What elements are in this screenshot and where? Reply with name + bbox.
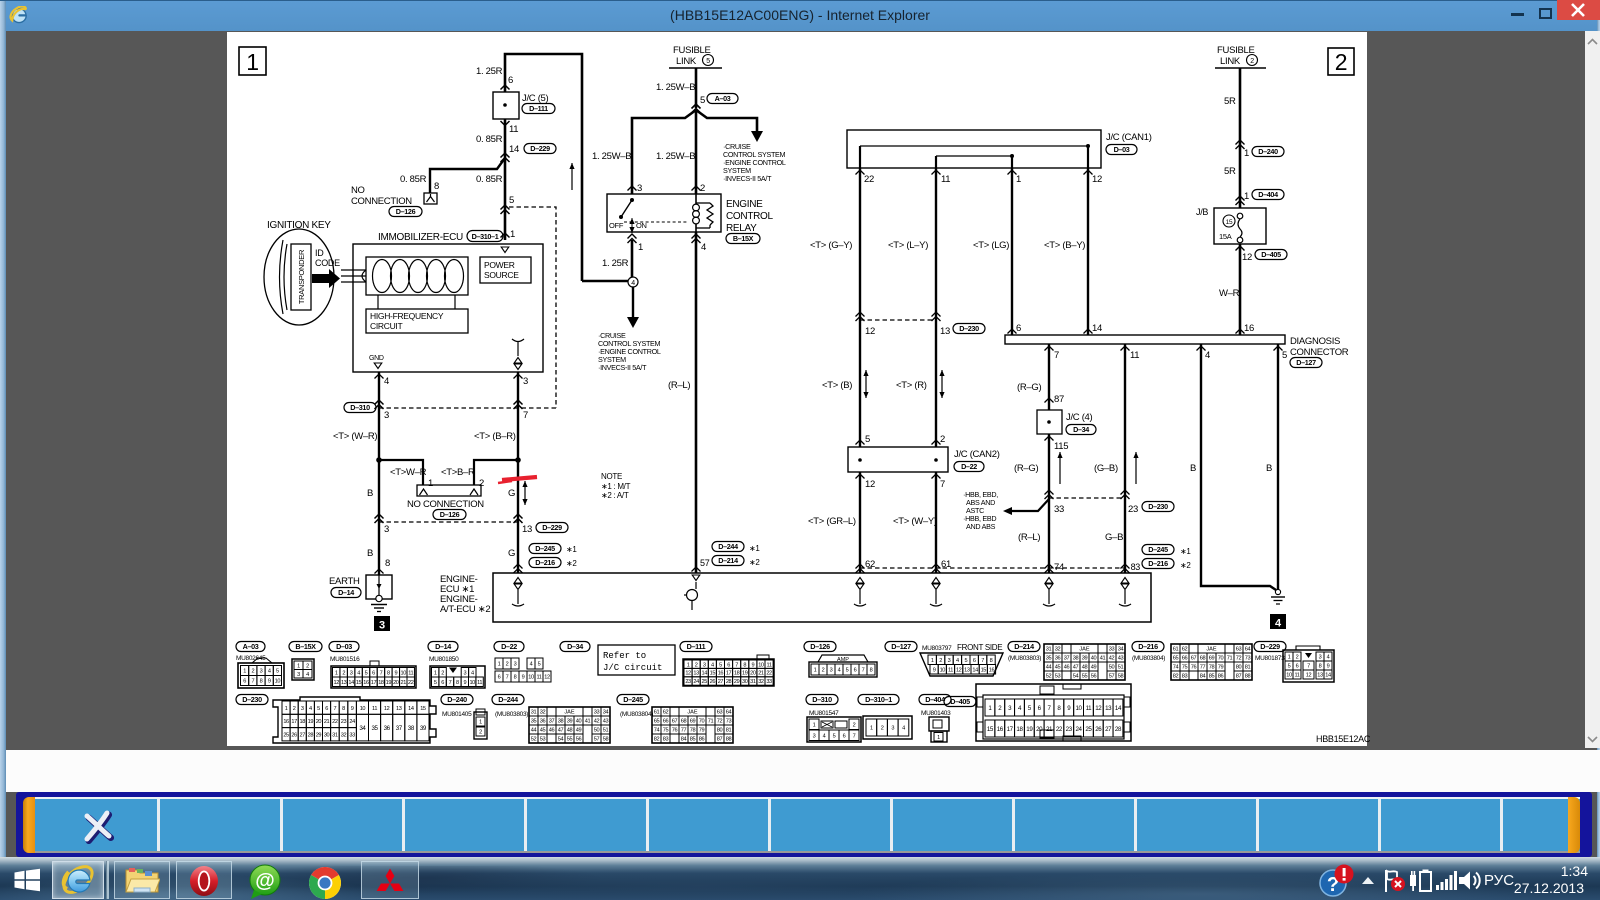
wire T B-Y: [1087, 168, 1089, 335]
pin 1 + D-240 pill: [1236, 140, 1245, 145]
svg-text:23: 23: [685, 679, 691, 685]
svg-text:B: B: [1266, 463, 1272, 474]
svg-text:6: 6: [498, 675, 501, 681]
wire pin4 B: [378, 372, 380, 575]
svg-text:61: 61: [1173, 647, 1179, 653]
toolbar right orange cap: [1568, 797, 1580, 853]
svg-text:20: 20: [750, 671, 756, 677]
svg-text:1: 1: [297, 663, 300, 669]
svg-text:11: 11: [509, 124, 518, 135]
svg-text:D–404: D–404: [925, 695, 945, 704]
svg-text:7: 7: [1307, 664, 1310, 670]
power source entry arrow: [501, 247, 509, 253]
wire 1.25R top bracket: [505, 54, 582, 281]
white diagram page: [227, 32, 1367, 746]
svg-text:31: 31: [750, 679, 756, 685]
svg-text:CIRCUIT: CIRCUIT: [370, 321, 402, 331]
svg-text:14: 14: [1115, 705, 1122, 712]
connector D-310-1 label: [858, 695, 899, 705]
svg-text:87: 87: [1054, 394, 1064, 405]
svg-text:D–126: D–126: [440, 510, 460, 519]
connector D-229 label: [1254, 642, 1286, 652]
svg-text:3: 3: [523, 376, 528, 387]
svg-text:12: 12: [1242, 252, 1252, 263]
svg-text:2: 2: [1296, 655, 1299, 661]
svg-text:4: 4: [1327, 655, 1330, 661]
taskbar Mail.ru agent icon: [246, 864, 284, 900]
refer to JC note box: [598, 645, 675, 675]
D-230 crossing right: [1045, 490, 1054, 495]
svg-text:<T> (R): <T> (R): [896, 380, 927, 391]
title text: [0, 7, 1600, 23]
svg-text:1: 1: [285, 706, 288, 712]
connector D-216 grid: [1171, 644, 1252, 680]
svg-text:SOURCE: SOURCE: [484, 270, 519, 280]
svg-text:D–245: D–245: [535, 544, 555, 553]
svg-text:68: 68: [681, 719, 687, 725]
svg-text:6: 6: [372, 670, 375, 676]
svg-text:5: 5: [719, 662, 722, 668]
svg-text:JAE: JAE: [1206, 647, 1217, 653]
svg-text:67: 67: [1191, 656, 1197, 662]
svg-text:77: 77: [1200, 665, 1206, 671]
svg-text:10: 10: [401, 670, 407, 676]
svg-text:4: 4: [357, 670, 360, 676]
svg-text:1: 1: [510, 229, 515, 240]
svg-text:2: 2: [1335, 49, 1348, 75]
svg-text:16: 16: [363, 680, 369, 686]
svg-text:53: 53: [1055, 674, 1061, 680]
wire fusible5 mid: [695, 110, 698, 194]
D-230 crossing can: [856, 312, 865, 317]
svg-text:57: 57: [700, 558, 710, 568]
svg-text:2: 2: [881, 726, 884, 732]
junction box J/C(CAN2): [848, 447, 948, 472]
svg-text:4: 4: [471, 670, 474, 676]
wire J/C5 to immobilizer: [504, 119, 507, 240]
svg-text:0. 85R: 0. 85R: [476, 174, 503, 185]
connector D-126 label: [804, 642, 836, 652]
svg-text:11: 11: [948, 667, 953, 673]
svg-text:58: 58: [603, 737, 609, 743]
svg-text:D–229: D–229: [1260, 642, 1280, 651]
svg-text:6: 6: [843, 733, 846, 739]
svg-text:75: 75: [1182, 665, 1188, 671]
svg-text:4: 4: [956, 658, 959, 664]
IE window title bar: [0, 0, 1600, 31]
svg-text:20: 20: [1036, 726, 1043, 733]
svg-text:12: 12: [334, 680, 340, 686]
svg-text:D–22: D–22: [501, 642, 517, 651]
svg-text:16: 16: [997, 726, 1004, 733]
svg-text:52: 52: [531, 737, 537, 743]
svg-text:5: 5: [964, 658, 967, 664]
svg-text:9: 9: [394, 670, 397, 676]
svg-text:<T> (LG): <T> (LG): [973, 240, 1009, 251]
svg-text:21: 21: [324, 719, 330, 725]
pill D-34 mid: [1066, 425, 1096, 435]
direction arrow up: [571, 163, 573, 190]
ecu internal antenna: [512, 339, 524, 356]
svg-text:74: 74: [654, 728, 660, 734]
svg-text:D–230: D–230: [242, 695, 262, 704]
D-229 crossing: [375, 514, 384, 519]
svg-text:27: 27: [718, 679, 724, 685]
svg-text:70: 70: [1218, 656, 1224, 662]
svg-text:D–245: D–245: [1148, 545, 1168, 554]
svg-text:19: 19: [742, 671, 748, 677]
svg-text:48: 48: [567, 728, 573, 734]
svg-text:50: 50: [594, 728, 600, 734]
pill D-310-1 label: [467, 231, 503, 242]
svg-text:8: 8: [385, 558, 390, 569]
svg-text:G: G: [508, 548, 515, 559]
svg-text:1. 25W–B: 1. 25W–B: [592, 151, 631, 162]
svg-text:10: 10: [469, 680, 475, 686]
svg-text:2: 2: [939, 658, 942, 664]
hbb arrow: [1003, 507, 1012, 515]
svg-text:LINK: LINK: [1220, 56, 1241, 67]
svg-text:13: 13: [1105, 705, 1112, 712]
svg-text:D–310: D–310: [350, 403, 370, 412]
svg-text:19: 19: [386, 680, 392, 686]
svg-text:1: 1: [498, 662, 501, 668]
connector D-03 grid: [370, 661, 379, 666]
svg-text:HIGH-FREQUENCY: HIGH-FREQUENCY: [370, 311, 444, 321]
pill D-111 top: [522, 104, 555, 114]
svg-text:FRONT SIDE: FRONT SIDE: [957, 643, 1002, 652]
svg-text:32: 32: [540, 710, 546, 716]
svg-text:12: 12: [685, 671, 691, 677]
svg-text:(R–G): (R–G): [1017, 382, 1041, 393]
svg-text:11: 11: [767, 662, 772, 668]
svg-text:5: 5: [706, 58, 710, 65]
svg-text:23: 23: [1066, 726, 1073, 733]
wire T L-Y: [935, 168, 937, 447]
red marker stroke: [502, 477, 537, 480]
svg-text:A–03: A–03: [243, 642, 259, 651]
svg-text:B: B: [1190, 463, 1196, 474]
language indicator: [1484, 872, 1524, 889]
tray up arrow: [1360, 874, 1376, 886]
connector D-230 outline: [273, 697, 436, 743]
svg-text:87: 87: [717, 737, 723, 743]
svg-text:MU803797: MU803797: [922, 645, 952, 652]
svg-text:(MU803803): (MU803803): [495, 711, 528, 718]
svg-text:·INVECS-II 5A/T: ·INVECS-II 5A/T: [598, 363, 647, 372]
svg-text:∗2 : A/T: ∗2 : A/T: [601, 491, 629, 500]
svg-text:5: 5: [846, 668, 849, 674]
connector D-244 grid: [529, 707, 610, 743]
svg-text:13: 13: [964, 667, 970, 673]
wire relay pin1 down: [631, 240, 634, 283]
svg-text:2: 2: [506, 662, 509, 668]
svg-text:MU801516: MU801516: [330, 656, 360, 663]
svg-text:43: 43: [1118, 656, 1124, 662]
svg-text:2: 2: [822, 668, 825, 674]
pill D-126 top: [389, 207, 422, 217]
svg-text:26: 26: [291, 732, 297, 738]
svg-text:14: 14: [702, 671, 708, 677]
svg-text:74: 74: [1054, 562, 1064, 573]
pill D-310 mid: [344, 403, 376, 413]
svg-text:7: 7: [380, 670, 383, 676]
taskbar Mitsubishi button: [361, 861, 419, 899]
svg-text:1: 1: [1244, 191, 1249, 202]
svg-text:86: 86: [699, 737, 705, 743]
svg-text:D–230: D–230: [959, 324, 979, 333]
svg-text:6: 6: [1016, 323, 1021, 334]
svg-text:D–216: D–216: [535, 558, 555, 567]
svg-text:32: 32: [758, 679, 764, 685]
svg-text:56: 56: [576, 737, 582, 743]
svg-text:33: 33: [766, 679, 772, 685]
svg-text:36: 36: [1055, 656, 1061, 662]
svg-text:D–03: D–03: [336, 642, 352, 651]
svg-text:83: 83: [1131, 562, 1141, 572]
svg-text:72: 72: [717, 719, 723, 725]
wire 5R upper: [1239, 68, 1242, 208]
svg-text:10: 10: [1286, 673, 1292, 679]
svg-text:5: 5: [538, 662, 541, 668]
wire fusible5 down: [695, 68, 698, 108]
svg-text:G–B: G–B: [1105, 532, 1123, 543]
svg-text:44: 44: [531, 728, 537, 734]
svg-text:73: 73: [726, 719, 732, 725]
svg-text:3: 3: [514, 662, 517, 668]
svg-text:14: 14: [348, 680, 354, 686]
connector D-111 label: [680, 642, 712, 652]
ground symbol earth: [371, 604, 387, 606]
svg-text:3: 3: [301, 706, 304, 712]
svg-text:D–405: D–405: [950, 697, 970, 706]
svg-text:73: 73: [1245, 656, 1251, 662]
svg-text:1: 1: [335, 670, 338, 676]
svg-text:5: 5: [434, 680, 437, 686]
svg-text:ID: ID: [315, 248, 324, 258]
tray battery icon: [1408, 869, 1434, 893]
diagnosis connector bar: [1005, 335, 1285, 344]
svg-text:29: 29: [734, 679, 740, 685]
svg-text:(MU803804): (MU803804): [1132, 655, 1165, 662]
svg-text:56: 56: [1091, 674, 1097, 680]
svg-text:88: 88: [726, 737, 732, 743]
svg-text:MU801547: MU801547: [809, 710, 839, 717]
svg-text:14: 14: [408, 706, 414, 712]
svg-text:4: 4: [1275, 618, 1282, 630]
svg-text:32: 32: [341, 732, 347, 738]
svg-text:D–14: D–14: [338, 588, 354, 597]
relay coil: [695, 194, 697, 204]
svg-text:19: 19: [1026, 726, 1033, 733]
tray flag icon: [1384, 869, 1406, 893]
dashed D-310 crossing: [379, 407, 556, 409]
svg-text:TRANSPONDER: TRANSPONDER: [297, 249, 306, 304]
svg-text:A/T-ECU ∗2: A/T-ECU ∗2: [440, 604, 490, 615]
wire node4 down arrow: [632, 287, 634, 317]
svg-text:D–310–1: D–310–1: [472, 232, 499, 241]
svg-text:13: 13: [396, 706, 402, 712]
wire pin3 G: [517, 372, 519, 573]
svg-text:D–244: D–244: [498, 695, 518, 704]
svg-text:D–245: D–245: [623, 695, 643, 704]
svg-text:57: 57: [1109, 674, 1115, 680]
relay resistor: [696, 202, 710, 204]
svg-text:MU801850: MU801850: [429, 656, 459, 663]
svg-text:D–216: D–216: [1148, 559, 1168, 568]
svg-text:67: 67: [672, 719, 678, 725]
svg-text:CONNECTION: CONNECTION: [351, 196, 412, 207]
toolbar left orange cap: [23, 797, 35, 853]
svg-text:48: 48: [1082, 665, 1088, 671]
connector D-34 label: [560, 642, 590, 652]
svg-text:9: 9: [751, 662, 754, 668]
svg-text:·INVECS-II 5A/T: ·INVECS-II 5A/T: [723, 174, 772, 183]
svg-text:4: 4: [631, 280, 635, 287]
svg-text:1: 1: [479, 720, 482, 726]
svg-text:D–214: D–214: [1014, 642, 1034, 651]
svg-text:8: 8: [342, 706, 345, 712]
svg-text:12: 12: [865, 326, 875, 337]
svg-text:4: 4: [309, 706, 312, 712]
svg-text:20: 20: [316, 719, 322, 725]
svg-text:37: 37: [1064, 656, 1070, 662]
svg-text:9: 9: [1327, 664, 1330, 670]
wire T LG: [1011, 168, 1013, 335]
wire R-G upper: [1048, 344, 1050, 410]
svg-text:78: 78: [690, 728, 696, 734]
svg-text:14: 14: [509, 144, 519, 155]
svg-text:(R–L): (R–L): [1018, 532, 1040, 543]
connector D-405 grid: [985, 699, 995, 716]
svg-text:ON: ON: [636, 221, 647, 230]
svg-text:1: 1: [937, 735, 940, 741]
svg-text:52: 52: [1046, 674, 1052, 680]
svg-text:30: 30: [742, 679, 748, 685]
bottom blue toolbar frame: [16, 792, 1592, 857]
power source box: [480, 257, 531, 283]
svg-text:84: 84: [1200, 674, 1206, 680]
tray signal bars: [1436, 870, 1458, 892]
svg-text:47: 47: [1073, 665, 1079, 671]
svg-text:D–111: D–111: [529, 104, 548, 113]
svg-text:26: 26: [710, 679, 716, 685]
minimize button: [1511, 13, 1524, 16]
svg-text:NOTE: NOTE: [601, 472, 622, 481]
connector D-310 label: [806, 695, 838, 705]
svg-text:31: 31: [531, 710, 537, 716]
svg-text:J/B: J/B: [1196, 207, 1208, 217]
svg-text:D–127: D–127: [1296, 358, 1316, 367]
svg-text:D–216: D–216: [1138, 642, 1158, 651]
svg-text:87: 87: [1236, 674, 1242, 680]
connector D-03 label: [329, 642, 359, 652]
svg-text:69: 69: [1209, 656, 1215, 662]
pill D-126 bottom: [433, 510, 466, 520]
svg-text:1: 1: [814, 668, 817, 674]
no-conn branch right: [474, 460, 518, 485]
pin 115: [1045, 436, 1054, 441]
connector A-03 label: [236, 642, 265, 652]
coupling lines: [341, 269, 366, 271]
svg-text:15: 15: [420, 706, 426, 712]
svg-text:11: 11: [1086, 705, 1093, 712]
svg-text:17: 17: [1007, 726, 1014, 733]
svg-text:∗2: ∗2: [1180, 561, 1191, 570]
svg-text:69: 69: [690, 719, 696, 725]
svg-text:12: 12: [956, 667, 962, 673]
connector D-240 grid: [474, 712, 487, 739]
svg-text:16: 16: [1244, 323, 1254, 334]
svg-text:6: 6: [325, 706, 328, 712]
svg-text:FUSIBLE: FUSIBLE: [673, 45, 711, 56]
svg-text:4: 4: [530, 662, 533, 668]
svg-text:D–03: D–03: [1114, 145, 1130, 154]
svg-text:63: 63: [1236, 647, 1242, 653]
svg-text:11: 11: [1130, 350, 1139, 361]
svg-text:22: 22: [1056, 726, 1063, 733]
svg-text:B–15X: B–15X: [733, 234, 754, 243]
svg-text:J/C (CAN2): J/C (CAN2): [954, 449, 1000, 460]
svg-text:79: 79: [1218, 665, 1224, 671]
svg-text:B: B: [367, 548, 373, 559]
svg-text:26: 26: [1095, 726, 1102, 733]
svg-text:10: 10: [940, 667, 946, 673]
svg-text:(MU803803): (MU803803): [1008, 655, 1041, 662]
svg-text:GND: GND: [369, 355, 384, 362]
svg-text:<T> (L–Y): <T> (L–Y): [888, 240, 928, 251]
svg-text:14: 14: [972, 667, 978, 673]
antenna coil L1: [373, 260, 392, 293]
svg-text:(G–B): (G–B): [1094, 463, 1118, 474]
svg-text:D–127: D–127: [891, 642, 911, 651]
svg-text:34: 34: [1118, 647, 1124, 653]
svg-text:1: 1: [870, 726, 873, 732]
svg-text:5: 5: [365, 670, 368, 676]
svg-text:40: 40: [1091, 656, 1097, 662]
svg-text:83: 83: [1182, 674, 1188, 680]
svg-text:3: 3: [637, 183, 642, 194]
svg-text:31: 31: [1046, 647, 1052, 653]
no connection terminal D-126: [424, 193, 437, 204]
svg-text:D–126: D–126: [396, 207, 416, 216]
wire R-G lower: [1048, 434, 1050, 573]
toolbar button row: [35, 797, 1580, 853]
svg-text:50: 50: [1109, 665, 1115, 671]
svg-text:JAE: JAE: [564, 710, 575, 716]
svg-text:D–126: D–126: [810, 642, 830, 651]
svg-text:28: 28: [1115, 726, 1122, 733]
svg-text:5: 5: [1288, 664, 1291, 670]
svg-text:38: 38: [558, 719, 564, 725]
maximize button: [1539, 8, 1552, 19]
connector D-405 outline: [976, 684, 1131, 741]
connector D-244 label: [492, 695, 524, 705]
svg-text:1: 1: [813, 722, 816, 728]
svg-text:4: 4: [268, 669, 271, 675]
engine control relay box K1: [607, 194, 721, 232]
svg-text:36: 36: [384, 725, 391, 732]
relay switch: [630, 198, 634, 202]
wire T GR-L: [859, 472, 861, 573]
svg-text:1: 1: [1244, 148, 1249, 159]
svg-text:78: 78: [1209, 665, 1215, 671]
svg-text:18: 18: [734, 671, 740, 677]
svg-text:EARTH: EARTH: [329, 576, 360, 587]
svg-text:OFF: OFF: [609, 221, 624, 230]
connector D-240 label: [441, 695, 473, 705]
connector D-14 grid: [430, 666, 485, 688]
